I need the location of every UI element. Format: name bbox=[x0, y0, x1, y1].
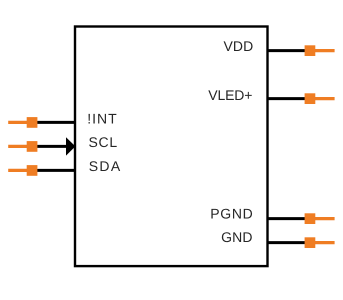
pin SDA wire bbox=[33, 169, 76, 172]
pin !INT wire bbox=[33, 121, 76, 124]
pin GND stub bbox=[314, 241, 335, 244]
pin VDD wire bbox=[267, 49, 311, 52]
IC body U1 bbox=[75, 27, 268, 267]
pin VLED+ terminal bbox=[305, 93, 316, 104]
pin PGND wire bbox=[267, 217, 311, 220]
svg-text:VLED+: VLED+ bbox=[208, 87, 252, 103]
pin GND wire bbox=[267, 241, 311, 244]
pin SCL terminal bbox=[27, 141, 38, 152]
pin SCL arrow bbox=[66, 137, 75, 155]
pin VLED+ wire bbox=[267, 97, 311, 100]
pin !INT terminal bbox=[27, 117, 38, 128]
pin PGND terminal bbox=[305, 213, 316, 224]
pin VDD terminal bbox=[305, 45, 316, 56]
svg-text:GND: GND bbox=[221, 229, 252, 245]
pin !INT stub bbox=[8, 121, 28, 124]
svg-text:SCL: SCL bbox=[89, 134, 118, 150]
pin VLED+ stub bbox=[314, 97, 335, 100]
svg-text:SDA: SDA bbox=[89, 158, 121, 174]
svg-text:!INT: !INT bbox=[87, 110, 117, 126]
pin SCL stub bbox=[8, 145, 28, 148]
pin PGND stub bbox=[314, 217, 335, 220]
pin VDD stub bbox=[314, 49, 335, 52]
pin SDA terminal bbox=[27, 165, 38, 176]
svg-text:VDD: VDD bbox=[224, 38, 254, 54]
pin GND terminal bbox=[305, 237, 316, 248]
svg-text:PGND: PGND bbox=[210, 206, 253, 222]
pin SCL wire bbox=[33, 145, 68, 148]
pin SDA stub bbox=[8, 169, 28, 172]
